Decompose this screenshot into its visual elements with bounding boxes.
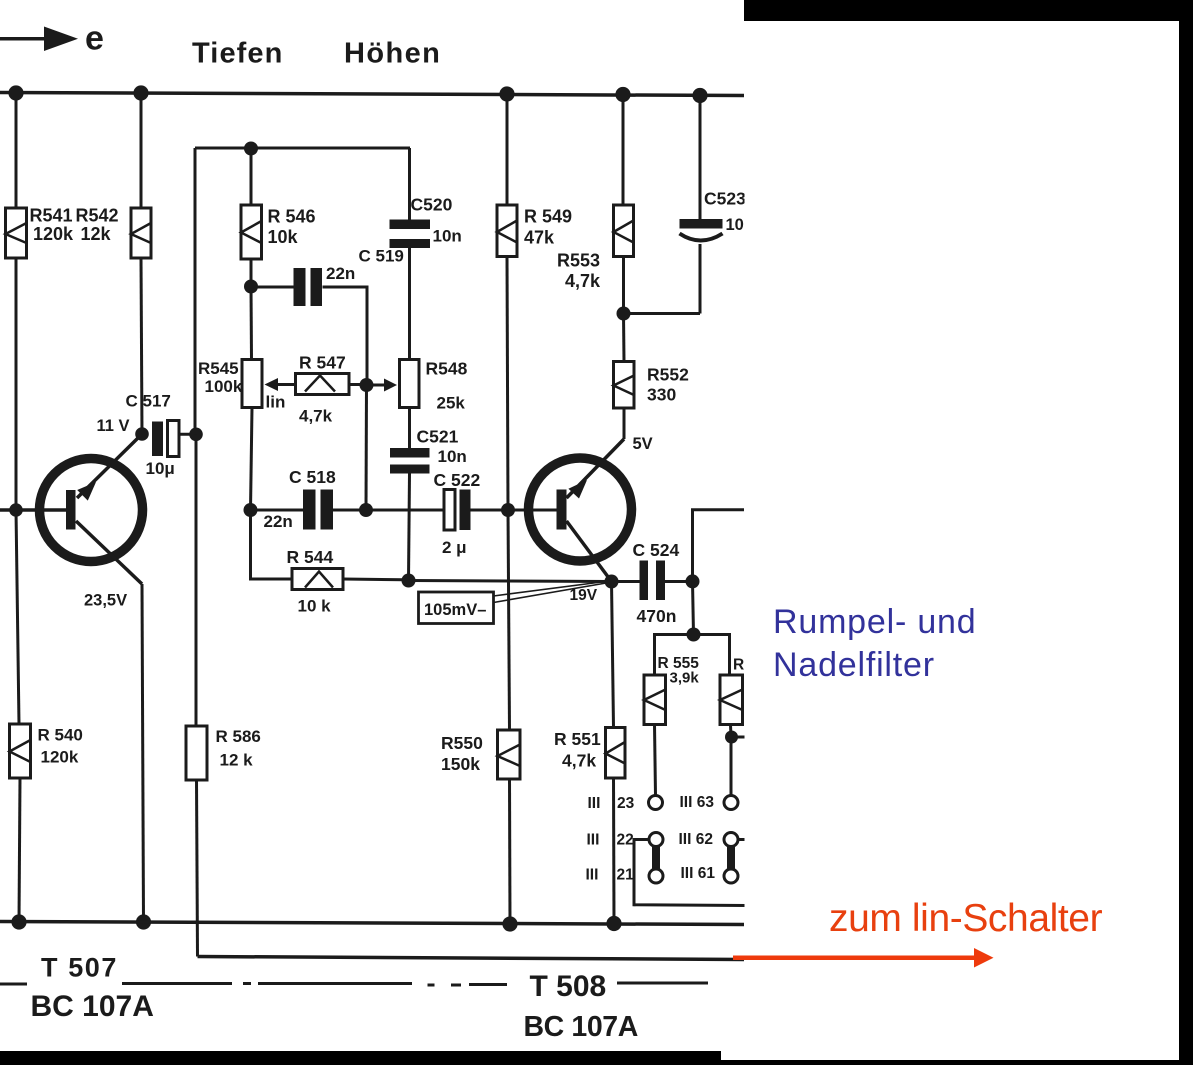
resistor R551 [554, 728, 625, 779]
wire column A upper [15, 93, 18, 208]
capacitor C523 [680, 189, 764, 241]
resistor R541 [6, 206, 75, 259]
node dot T508 base [501, 503, 515, 517]
svg-text:12k: 12k [81, 224, 112, 244]
svg-text:e: e [85, 20, 104, 58]
wire ground bus [0, 922, 744, 925]
wire C519 right to column x367 [323, 287, 368, 385]
svg-text:120k: 120k [33, 224, 74, 244]
wire stub right [732, 736, 747, 739]
wire C522 to T508 base [471, 509, 558, 512]
svg-text:11 V: 11 V [97, 417, 130, 435]
svg-text:C 524: C 524 [633, 540, 680, 560]
svg-text:R 544: R 544 [287, 547, 334, 567]
node dot bus-R549 [499, 86, 514, 101]
wire filter top right branch [694, 635, 730, 676]
wire R546 bottom lead [250, 259, 253, 287]
resistor R586 [186, 726, 261, 780]
svg-text:zum lin-Schalter: zum lin-Schalter [829, 897, 1103, 940]
node dot 11V [135, 427, 149, 441]
wire top supply bus [0, 93, 744, 96]
svg-text:Höhen: Höhen [344, 38, 441, 70]
wire R553 bottom [622, 257, 625, 314]
transistor T508 [529, 439, 632, 582]
capacitor C519 [294, 247, 404, 307]
node dot base T507 [9, 503, 23, 517]
svg-text:22n: 22n [264, 512, 293, 531]
svg-text:150k: 150k [441, 754, 480, 774]
svg-text:C 522: C 522 [434, 470, 481, 490]
svg-text:4,7k: 4,7k [562, 751, 596, 771]
svg-text:Rumpel- und: Rumpel- und [773, 603, 976, 641]
terminal III 62 [724, 833, 738, 847]
svg-text:25k: 25k [437, 394, 466, 413]
svg-text:10k: 10k [268, 227, 299, 247]
svg-text:R 586: R 586 [216, 727, 261, 746]
input arrow e [0, 20, 104, 58]
white overlay panel [745, 0, 1180, 1065]
svg-text:22n: 22n [326, 264, 355, 283]
node dot bus-R553 [615, 87, 630, 102]
node dot ground-A [11, 914, 26, 929]
svg-text:III: III [587, 832, 600, 849]
svg-text:C 518: C 518 [289, 467, 336, 487]
svg-text:22: 22 [617, 832, 634, 849]
measurement box 105mV [419, 581, 610, 624]
resistor R549 [497, 205, 572, 257]
node dot bus-C523 [692, 88, 707, 103]
node dot top rail R546 [244, 142, 258, 156]
black bottom strip right [721, 1060, 1193, 1065]
dashed separator line [0, 983, 708, 985]
terminal III 23 [649, 796, 663, 810]
svg-text:120k: 120k [41, 748, 79, 767]
svg-text:4,7k: 4,7k [299, 407, 333, 426]
resistor R544 [287, 547, 344, 616]
wire C518 right to C522 [333, 509, 444, 512]
svg-text:105mV–: 105mV– [424, 601, 486, 619]
node dot T508 emitter [605, 575, 619, 589]
wire R544 right [343, 578, 404, 582]
wire R546 top lead [250, 148, 253, 205]
wire column x367 to base row [365, 385, 369, 510]
wire to C518 [251, 509, 304, 512]
wire filter top left branch [655, 635, 694, 676]
transistor T507 [40, 434, 143, 584]
wire R545 bottom to R544 [251, 510, 293, 579]
wire C520 column top [408, 148, 411, 220]
wire C524 right [665, 580, 687, 583]
wire R556 bottom [729, 725, 733, 738]
svg-text:R 547: R 547 [299, 353, 346, 373]
svg-text:C 517: C 517 [126, 392, 171, 411]
svg-text:R552: R552 [647, 365, 689, 385]
wire emitter row [409, 581, 612, 582]
wire C523 bottom [699, 244, 702, 314]
svg-text:R 551: R 551 [554, 729, 601, 749]
wire block left column x196 lower [195, 434, 198, 726]
capacitor C518 [264, 467, 336, 531]
svg-text:BC 107A: BC 107A [31, 990, 154, 1023]
orange arrow [733, 948, 994, 968]
svg-text:C523: C523 [704, 189, 746, 209]
wire to terminal III63 [730, 737, 733, 796]
wire T507 emitter to ground [142, 584, 144, 922]
svg-text:2 μ: 2 μ [442, 538, 467, 557]
wire column A mid [15, 258, 18, 510]
jumper 22-21 [652, 846, 660, 871]
svg-text:T 508: T 508 [530, 970, 607, 1003]
terminal III 21 [649, 869, 663, 883]
wire R550 to ground [508, 779, 512, 924]
wire R547 right [349, 383, 361, 386]
svg-text:T 507: T 507 [41, 953, 118, 983]
wire R552 top [622, 314, 626, 362]
wire column B upper [140, 93, 143, 208]
potentiometer R548 [400, 359, 468, 413]
wire to C519 [251, 286, 294, 289]
terminal III 22 [649, 833, 663, 847]
svg-text:Nadelfilter: Nadelfilter [773, 646, 935, 684]
wire base node down to R550 [508, 510, 510, 730]
resistor R555 [644, 655, 699, 725]
terminal III 61 [724, 869, 738, 883]
svg-text:10n: 10n [433, 227, 462, 246]
jumper 62-61 [727, 846, 735, 871]
terminal III 63 [724, 796, 738, 810]
node dot R546-C519-R545 [244, 280, 258, 294]
svg-text:23,5V: 23,5V [84, 592, 127, 610]
svg-text:R545: R545 [198, 359, 239, 378]
svg-text:5V: 5V [633, 435, 653, 453]
wire output down [693, 581, 694, 634]
wire C520 to R548 [408, 248, 411, 360]
resistor R542 [76, 206, 152, 259]
svg-text:R548: R548 [426, 359, 468, 379]
svg-text:C 519: C 519 [359, 247, 404, 266]
resistor R553 [557, 205, 634, 291]
capacitor C524 [633, 540, 680, 626]
capacitor C521 [390, 427, 467, 474]
svg-text:III: III [586, 867, 599, 884]
svg-text:lin: lin [266, 393, 286, 412]
wire R545 wiper arrow [265, 378, 297, 391]
svg-text:C520: C520 [411, 195, 453, 215]
svg-text:Tiefen: Tiefen [192, 38, 283, 70]
node dot base row x366 [359, 503, 373, 517]
svg-text:19V: 19V [570, 587, 598, 604]
wire C523 column top [699, 96, 702, 220]
svg-text:R550: R550 [441, 733, 483, 753]
svg-text:23: 23 [617, 795, 635, 812]
node dot bus-B [133, 85, 148, 100]
svg-text:III 63: III 63 [680, 794, 715, 811]
black top bar [744, 0, 1193, 21]
node dot R556 [725, 731, 738, 744]
capacitor C522 [434, 470, 481, 557]
wire R555 to terminal [655, 725, 656, 796]
wire R540 to ground [19, 778, 20, 922]
svg-text:R542: R542 [76, 206, 119, 226]
node dot R553-C523 [617, 307, 631, 321]
resistor R540 [10, 724, 83, 778]
svg-text:R541: R541 [30, 206, 73, 226]
node dot ground R551 [606, 916, 621, 931]
wire R553 top [622, 95, 625, 206]
node dot filter top [687, 628, 701, 642]
svg-text:470n: 470n [637, 606, 677, 626]
node dot bus-A [8, 85, 23, 100]
svg-text:4,7k: 4,7k [565, 271, 601, 291]
node dot C517-R586col [189, 428, 203, 442]
svg-text:III: III [588, 795, 601, 812]
wire T508 collector up [623, 408, 626, 439]
svg-text:21: 21 [617, 867, 635, 884]
node dot ground-B [136, 914, 151, 929]
wire C521 to R544 node [409, 474, 410, 581]
svg-text:III 62: III 62 [679, 831, 713, 848]
svg-text:10 k: 10 k [298, 597, 332, 616]
wire output up and right [693, 510, 745, 582]
capacitor C517 [126, 392, 180, 479]
wire T507 base lead [0, 508, 66, 512]
capacitor C520 [390, 195, 462, 249]
resistor R552 [614, 362, 690, 409]
svg-text:3,9k: 3,9k [670, 670, 700, 687]
svg-text:330: 330 [647, 385, 676, 405]
svg-text:C521: C521 [417, 427, 459, 447]
svg-text:R 546: R 546 [268, 207, 316, 227]
wire column A lower [16, 510, 19, 724]
wire R586 to output corner [197, 780, 198, 957]
wire hook from III22 to lower rail [634, 840, 746, 906]
node dot R544-C521 [402, 574, 416, 588]
svg-text:III 61: III 61 [681, 865, 716, 882]
svg-text:47k: 47k [524, 228, 555, 248]
potentiometer R545 [198, 359, 285, 412]
svg-text:10n: 10n [438, 447, 467, 466]
wire R551 to ground [612, 778, 616, 923]
svg-text:R 549: R 549 [524, 207, 572, 227]
svg-text:R 540: R 540 [38, 726, 83, 745]
svg-text:BC 107A: BC 107A [524, 1011, 638, 1043]
wire arrow into R548 [373, 379, 397, 392]
wire emitter to C524 [612, 580, 640, 583]
black bottom-left bar [0, 1051, 721, 1065]
wire C523 branch [624, 312, 701, 315]
resistor R546 [241, 205, 316, 259]
node dot R547-right [360, 378, 374, 392]
black right bar [1179, 21, 1193, 1065]
wire R548 to C521 [408, 408, 411, 449]
wire R549 to base node [507, 257, 508, 511]
svg-text:R553: R553 [557, 251, 600, 271]
wire R545 top lead [250, 287, 254, 360]
resistor R547 [296, 353, 350, 426]
wire column B to 11V node [141, 258, 142, 434]
wire block left column x196 upper [194, 148, 197, 434]
node dot ground R550 [502, 916, 517, 931]
svg-text:12 k: 12 k [220, 751, 254, 770]
wire emitter down to R551 [612, 582, 614, 728]
resistor R556 [720, 657, 766, 725]
svg-text:10μ: 10μ [146, 459, 175, 478]
wire C517 right [179, 433, 196, 436]
node dot output [686, 574, 700, 588]
node dot C518-left [244, 503, 258, 517]
resistor R550 [441, 730, 520, 779]
wire block top rail [195, 147, 410, 150]
annotation Rumpel- und Nadelfilter [773, 603, 976, 684]
wire R545 bottom lead [251, 408, 253, 511]
wire R549 column top [506, 94, 509, 205]
svg-text:100k: 100k [205, 377, 243, 396]
wire stub III62 [738, 838, 746, 841]
wire output line to lin-Schalter [198, 957, 745, 960]
